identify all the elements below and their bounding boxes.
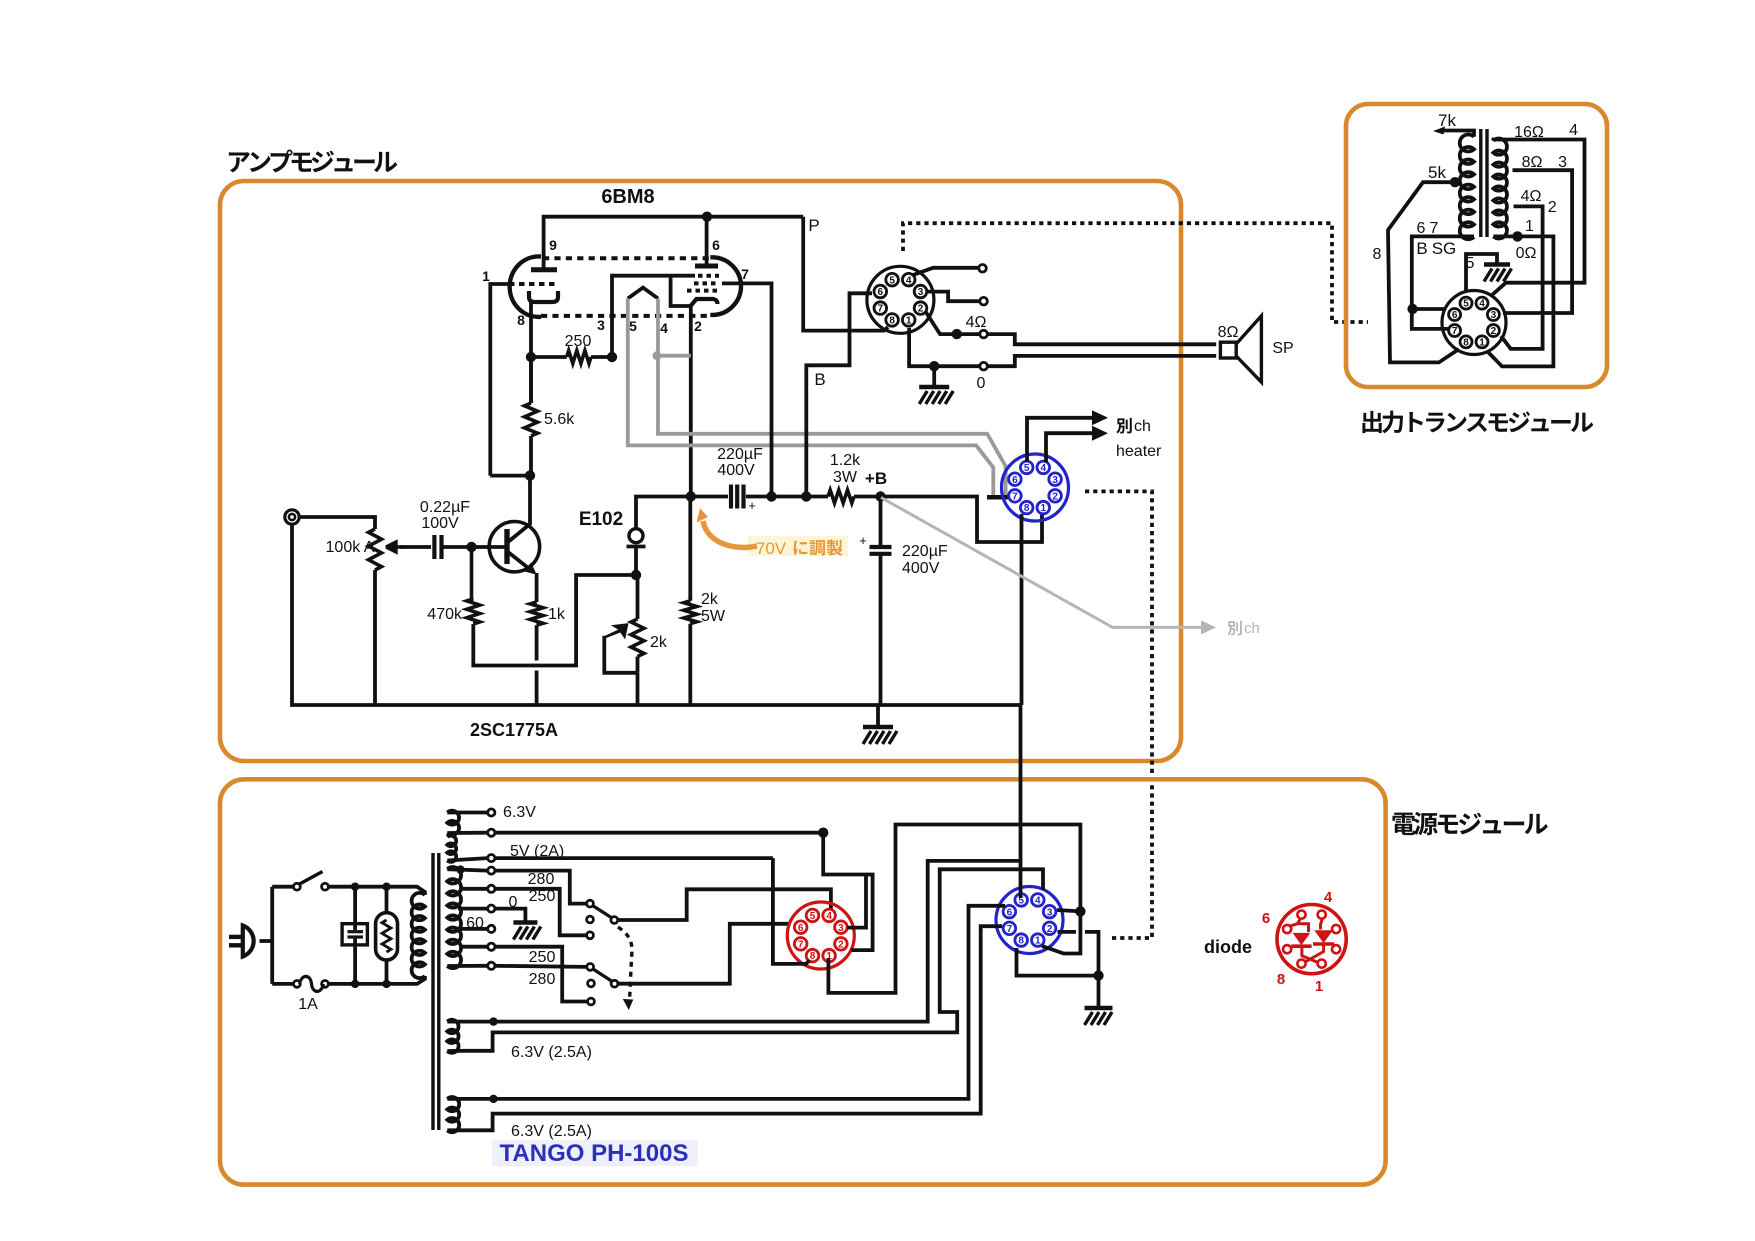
ground power module — [1085, 976, 1113, 1025]
winding 5V — [447, 836, 456, 862]
wire 6.3V top to terminal — [447, 811, 487, 815]
ground amp module — [863, 705, 897, 744]
ground 0 tap — [513, 923, 541, 940]
svg-text:0Ω: 0Ω — [1516, 245, 1537, 262]
svg-text:E102: E102 — [579, 509, 623, 530]
ground OPT — [1484, 265, 1512, 282]
terminal 8ohm — [980, 297, 988, 305]
pin number 6 6BM8 — [712, 237, 720, 253]
svg-text:70V: 70V — [756, 539, 787, 558]
speaker SP — [1218, 316, 1294, 382]
triode grid (dashed) — [509, 282, 556, 286]
wire jack to pot top — [299, 517, 375, 529]
tube 6BM8 envelope left arc — [510, 257, 541, 317]
heater wires end tick — [987, 495, 1008, 500]
pin number 2 6BM8 — [694, 318, 702, 334]
dashed switch gang link — [618, 927, 633, 1010]
resistor 2k 5W — [684, 497, 726, 706]
pentode grid g2 screen (dashed) — [694, 281, 719, 285]
pot wiper arrow — [386, 542, 404, 552]
svg-text:ch: ch — [1244, 620, 1260, 637]
svg-text:+B: +B — [865, 469, 887, 488]
wire 250 to pin3 node — [591, 355, 612, 359]
wire socket pin4 to 16ohm terminal — [913, 268, 978, 275]
heater filament symbol — [628, 288, 658, 299]
wire blue pin3 to junction — [1057, 910, 1080, 911]
resistor 1k — [530, 602, 566, 625]
svg-text:1: 1 — [482, 268, 490, 284]
pin number 5 6BM8 — [629, 318, 637, 334]
triode cathode — [529, 291, 558, 302]
svg-text:5: 5 — [629, 318, 637, 334]
junction 0 wire ground tap — [929, 361, 939, 371]
svg-text:6.3V (2.5A): 6.3V (2.5A) — [511, 1123, 592, 1140]
svg-text:1A: 1A — [298, 996, 318, 1013]
terminal 0 — [458, 894, 518, 912]
svg-text:7: 7 — [1007, 924, 1013, 935]
svg-text:2: 2 — [918, 304, 924, 315]
diode D2 — [1313, 930, 1334, 944]
svg-text:7: 7 — [741, 266, 749, 282]
junction MH top — [382, 883, 390, 891]
junction base-470k — [466, 542, 476, 552]
svg-text:P: P — [808, 216, 819, 235]
wire pin7 down — [722, 283, 772, 496]
tube 6BM8 envelope top dashed — [543, 256, 709, 260]
terminal 250 upper — [460, 885, 555, 905]
transformer OPT core — [1481, 129, 1487, 237]
svg-text:2SC1775A: 2SC1775A — [470, 720, 558, 740]
AC plug — [229, 926, 254, 957]
wire blue pin7 to winding B bottom — [447, 926, 1002, 1130]
junction 250 left — [526, 352, 536, 362]
svg-text:1: 1 — [1041, 503, 1047, 514]
terminal 280 upper — [488, 867, 555, 888]
socket rectifier (red) — [787, 902, 854, 969]
power module box 電源モジュール — [220, 779, 1386, 1184]
wire OPT primary top 7k lead — [1433, 111, 1474, 137]
svg-text:1: 1 — [1035, 936, 1041, 947]
svg-text:5: 5 — [889, 275, 895, 286]
junction blue pin3 B+ — [1075, 906, 1085, 916]
svg-text:1: 1 — [1479, 338, 1485, 349]
wire OPT pin5 to ground — [1466, 254, 1497, 292]
terminal 0 — [977, 362, 988, 392]
wire plug to split — [260, 887, 273, 984]
svg-text:7: 7 — [1452, 326, 1458, 337]
wire blue pin8 to ground — [1017, 948, 1099, 976]
junction P node — [801, 491, 811, 501]
potentiometer 100k A — [326, 529, 382, 570]
pentode plate — [695, 264, 718, 269]
svg-text:3: 3 — [1491, 310, 1497, 321]
svg-text:3: 3 — [838, 923, 844, 934]
svg-text:8Ω: 8Ω — [1218, 324, 1239, 341]
svg-text:100k A: 100k A — [326, 539, 375, 556]
wire to mains switch — [272, 885, 293, 889]
socket output connector (amp) — [867, 266, 934, 333]
svg-text:470k: 470k — [427, 606, 463, 623]
wire pin1 to collector node — [490, 474, 531, 478]
svg-text:3: 3 — [1047, 907, 1053, 918]
svg-text:+: + — [748, 498, 756, 513]
junction power ground — [1093, 970, 1103, 980]
terminal 4ohm — [966, 314, 988, 338]
terminal 6.3V bottom — [488, 829, 495, 836]
annotation 70V adjust — [697, 508, 849, 558]
wire red pin1 to B+ out — [828, 825, 1080, 993]
svg-text:220µF: 220µF — [902, 543, 948, 560]
svg-text:5.6k: 5.6k — [544, 411, 575, 428]
svg-text:5: 5 — [1024, 463, 1030, 474]
svg-text:2: 2 — [1548, 199, 1557, 216]
svg-text:8: 8 — [889, 316, 895, 327]
transistor base bar — [504, 529, 509, 564]
label 6 7 B SG — [1416, 220, 1456, 258]
svg-text:100V: 100V — [421, 515, 459, 532]
svg-text:8: 8 — [1373, 246, 1382, 263]
lamp E102 — [579, 509, 646, 547]
junction OPT 0ohm — [1512, 231, 1522, 241]
amp module box アンプモジュール — [220, 181, 1181, 761]
wire blue pin1 to junction — [1042, 911, 1080, 953]
svg-text:2k: 2k — [650, 634, 668, 651]
terminal 250 lower — [460, 943, 555, 966]
amp module title アンプモジュール — [229, 150, 397, 173]
svg-text:6: 6 — [798, 923, 804, 934]
capacitor 220uF 400V (coupling) — [717, 446, 763, 513]
junction OPT pin6 line — [1407, 304, 1417, 314]
transformer PT primary coil — [412, 893, 425, 978]
svg-text:2k: 2k — [701, 591, 719, 608]
tube 6BM8 label — [601, 186, 654, 208]
output transformer module box — [1346, 104, 1607, 387]
wire blue pin5 branch to winding A top — [497, 861, 1021, 1022]
svg-text:6: 6 — [712, 237, 720, 253]
wire pentode g3 to pin3 lead — [612, 276, 695, 357]
svg-text:400V: 400V — [902, 560, 940, 577]
svg-text:220µF: 220µF — [717, 446, 763, 463]
fuse 1A — [294, 976, 329, 1013]
tube 6BM8 envelope bottom dashed — [541, 314, 709, 318]
wire cap to base — [442, 545, 506, 549]
input jack — [285, 510, 299, 524]
terminal 5V — [488, 843, 565, 862]
svg-text:1: 1 — [906, 316, 912, 327]
label TANGO PH-100S — [492, 1140, 698, 1167]
wire 0 terminal to speaker bottom — [987, 356, 1216, 366]
winding A 6.3V 2.5A — [447, 1020, 592, 1061]
diode module label — [1204, 937, 1252, 957]
tube 6BM8 envelope right arc — [710, 257, 741, 315]
svg-text:250: 250 — [565, 333, 592, 350]
ground speaker common — [919, 366, 953, 404]
pentode grid g3 (dashed) — [698, 274, 719, 278]
wire 5.6k to collector node — [529, 436, 533, 476]
svg-text:+: + — [859, 533, 867, 548]
terminal 60 — [460, 915, 495, 933]
varistor MH — [376, 887, 398, 984]
label 別ch heater — [1116, 418, 1162, 460]
wire 280 lower to switch2 top — [495, 966, 587, 967]
diode socket pins — [1283, 911, 1340, 968]
dashed link output socket to transformer module — [903, 223, 1368, 322]
wire pentode internal g3-cathode tie — [671, 276, 691, 306]
svg-text:4: 4 — [1569, 122, 1578, 139]
wire blue pin4 to heater arrow — [1046, 426, 1108, 463]
junction node plate top — [702, 212, 712, 222]
wire blue pin8 to ground bus — [1020, 514, 1024, 705]
svg-text:SG: SG — [1432, 239, 1457, 258]
svg-text:4Ω: 4Ω — [966, 314, 987, 331]
junction collector node — [525, 470, 535, 480]
wire switch1 common to red pin4 — [618, 889, 831, 920]
wire blue pin2 to ground (hop) — [1058, 932, 1099, 976]
wire blue pin4 to winding A bottom — [467, 869, 1043, 1051]
transformer PT core — [433, 853, 439, 1130]
transistor emitter stroke with arrow — [508, 552, 537, 575]
transformer OPT primary coil — [1460, 134, 1474, 239]
svg-text:5: 5 — [1466, 255, 1475, 272]
junction 6.3V wire corner — [818, 828, 828, 838]
potentiometer 2k — [631, 575, 668, 673]
diode wiring pin4 to D2 — [1321, 918, 1323, 930]
wire fuse to primary bottom — [329, 976, 425, 984]
socket heater/B+ connector (amp, blue) — [1002, 454, 1069, 521]
svg-text:6: 6 — [1452, 310, 1458, 321]
junction winding A top — [489, 1017, 497, 1025]
junction filter bottom — [351, 980, 359, 988]
wire heater pin5 lead (gray) — [628, 299, 994, 496]
junction 250 right pin3 — [607, 352, 617, 362]
wire jack ground down to bus — [292, 524, 1022, 705]
label 16ohm and 4 — [1514, 122, 1578, 141]
resistor 470k — [427, 547, 480, 624]
svg-text:diode: diode — [1204, 937, 1252, 957]
label 1 and 0ohm — [1516, 218, 1537, 262]
svg-text:4Ω: 4Ω — [1521, 188, 1542, 205]
wire 0 tap to ground — [495, 909, 525, 923]
wire 5V to terminal — [447, 858, 487, 860]
transistor collector stroke — [508, 476, 530, 542]
wire triode cathode pin8 lead — [529, 302, 533, 403]
svg-text:8Ω: 8Ω — [1522, 154, 1543, 171]
pin number 3 6BM8 — [597, 317, 605, 333]
svg-text:8: 8 — [1018, 936, 1024, 947]
svg-text:8: 8 — [1024, 503, 1030, 514]
svg-text:9: 9 — [549, 237, 557, 253]
wire gray to other channel B+ — [881, 498, 1260, 638]
svg-text:6.3V (2.5A): 6.3V (2.5A) — [511, 1044, 592, 1061]
svg-text:3: 3 — [597, 317, 605, 333]
svg-text:0: 0 — [977, 375, 986, 392]
wire red pin3 heater branch — [847, 876, 866, 928]
capacitor 220uF 400V (filter) — [859, 497, 948, 706]
wire socket pin3 to 8ohm terminal — [927, 292, 979, 302]
svg-text:B: B — [814, 370, 825, 389]
svg-text:heater: heater — [1116, 443, 1162, 460]
svg-text:16Ω: 16Ω — [1514, 124, 1544, 141]
winding 6.3V — [447, 811, 459, 835]
capacitor 0.22uF 100V — [420, 499, 470, 559]
pin number 8 6BM8 — [517, 312, 525, 328]
svg-text:2: 2 — [1052, 491, 1058, 502]
svg-text:7: 7 — [878, 304, 884, 315]
wire OPT 0ohm tap to 1 — [1488, 236, 1553, 366]
wire 250 upper to switch1 bottom — [495, 889, 587, 936]
socket heater/B+ connector (power, blue) — [996, 887, 1063, 954]
pin number 4 6BM8 — [660, 320, 668, 336]
wire pot bottom to bus — [373, 570, 377, 705]
diode wiring pin6 pin5 to D1 — [1289, 920, 1309, 933]
junction pin2 node — [686, 491, 696, 501]
junction MH bottom — [382, 980, 390, 988]
resistor 250 — [565, 333, 592, 364]
svg-text:1.2k: 1.2k — [830, 452, 861, 469]
wire triode grid to pin1 lead — [490, 284, 509, 476]
pin number 7 6BM8 — [741, 266, 749, 282]
wire 280 upper to switch1 top — [495, 871, 587, 904]
diode socket (red) — [1277, 905, 1346, 974]
label 8ohm and 3 — [1522, 154, 1568, 171]
svg-text:6.3V: 6.3V — [503, 804, 536, 821]
junction E102 bottom — [631, 570, 641, 580]
resistor 1.2k 3W — [828, 452, 861, 503]
power module title 電源モジュール — [1392, 812, 1547, 835]
svg-text:7: 7 — [1430, 220, 1439, 237]
svg-text:4: 4 — [1479, 299, 1485, 310]
label 8 OPT socket wire — [1373, 246, 1382, 263]
transformer OPT secondary coil — [1493, 139, 1507, 239]
svg-text:6BM8: 6BM8 — [601, 186, 654, 208]
junction 4ohm wire — [952, 329, 962, 339]
switch2 HV select — [587, 964, 618, 1005]
svg-text:B: B — [1416, 239, 1427, 258]
svg-text:4: 4 — [1035, 896, 1041, 907]
svg-text:2: 2 — [694, 318, 702, 334]
wire 5V winding to red pin8 — [495, 858, 810, 964]
wire pentode plate to pin6 lead — [705, 217, 709, 266]
wire blue pin5 to heater arrow — [1027, 410, 1108, 461]
junction winding B top — [489, 1095, 497, 1103]
svg-text:5: 5 — [1463, 299, 1469, 310]
svg-text:1: 1 — [1525, 218, 1534, 235]
pin number 9 6BM8 — [549, 237, 557, 253]
winding HV — [447, 867, 461, 968]
svg-text:7: 7 — [798, 939, 804, 950]
diode pin labels — [1262, 889, 1333, 995]
transistor 2SC1775A circle — [489, 522, 539, 572]
wire OPT 4ohm tap to 2 — [1501, 206, 1543, 349]
svg-text:2: 2 — [838, 939, 844, 950]
pin number 1 6BM8 — [482, 268, 490, 284]
terminal 6.3V top — [488, 804, 537, 821]
wire B line — [806, 293, 872, 496]
diode wiring D2 to pin8 — [1306, 944, 1324, 962]
wire pentode cathode pin2 lead — [689, 306, 693, 497]
svg-text:6: 6 — [1012, 475, 1018, 486]
svg-text:400V: 400V — [717, 462, 755, 479]
wire 4ohm terminal to speaker top — [987, 334, 1216, 344]
svg-text:60: 60 — [466, 915, 484, 932]
svg-text:4: 4 — [826, 911, 832, 922]
wire 6.3V winding to red pin2 — [495, 833, 873, 950]
junction +B node — [865, 469, 887, 502]
resistor 5.6k — [525, 403, 576, 436]
svg-text:4: 4 — [660, 320, 668, 336]
wire 2k pot bottom to bus — [636, 673, 640, 705]
svg-text:4: 4 — [1324, 889, 1333, 906]
svg-text:1k: 1k — [548, 606, 566, 623]
svg-text:280: 280 — [528, 871, 555, 888]
svg-text:5: 5 — [810, 911, 816, 922]
wire switch to primary top — [329, 887, 425, 895]
svg-text:3: 3 — [918, 287, 924, 298]
terminal 16ohm — [979, 265, 987, 273]
socket OPT (black) — [1442, 291, 1506, 355]
svg-text:3W: 3W — [833, 469, 858, 486]
switch mains — [294, 872, 329, 891]
svg-text:280: 280 — [529, 971, 556, 988]
svg-text:8: 8 — [1463, 338, 1469, 349]
wire 470k bottom to E102 node — [473, 575, 631, 666]
svg-text:SP: SP — [1272, 340, 1293, 357]
label 4ohm and 2 — [1521, 188, 1557, 216]
wire to fuse — [272, 982, 293, 986]
svg-text:TANGO PH-100S: TANGO PH-100S — [500, 1140, 689, 1167]
pentode cathode — [691, 299, 718, 306]
svg-text:7k: 7k — [1438, 111, 1456, 130]
svg-text:ch: ch — [1134, 418, 1151, 435]
svg-text:6: 6 — [878, 287, 884, 298]
svg-text:0.22µF: 0.22µF — [420, 499, 470, 516]
wire socket pin1 to 0 terminal — [909, 328, 979, 366]
svg-text:6: 6 — [1262, 910, 1270, 927]
wire plate top bus — [544, 217, 804, 270]
winding B 6.3V 2.5A — [447, 1097, 592, 1140]
svg-text:2: 2 — [1491, 326, 1497, 337]
wire OPT 5k tap — [1388, 163, 1459, 362]
svg-text:5k: 5k — [1428, 163, 1446, 182]
wire amp pin8 down to blue pin5 — [1019, 705, 1023, 898]
wire 250 lower to switch2 bottom — [495, 947, 588, 1002]
wire gray heater tap to cathode line — [657, 354, 691, 358]
wire socket pin2 to 4ohm terminal — [926, 312, 980, 335]
svg-text:6: 6 — [1417, 220, 1426, 237]
junction OPT 5k tap — [1450, 177, 1460, 187]
wire 1k bottom to bus (with hop) — [535, 625, 539, 705]
wire wiper to cap 0.22uF — [400, 545, 431, 549]
svg-text:2: 2 — [1047, 924, 1053, 935]
diode wiring D1 to pin1 — [1302, 946, 1318, 962]
svg-text:8: 8 — [810, 951, 816, 962]
terminal 280 lower — [447, 962, 555, 988]
svg-text:6: 6 — [1007, 907, 1013, 918]
svg-text:250: 250 — [529, 949, 556, 966]
svg-text:4: 4 — [1041, 463, 1047, 474]
junction filter top — [351, 883, 359, 891]
junction gray heater tap — [653, 351, 662, 360]
dashed link amp blue socket to power module — [1085, 491, 1152, 938]
wire HV top to terminal 280 — [447, 869, 487, 870]
wire 6.3V bottom to terminal — [447, 831, 487, 835]
svg-text:3: 3 — [1558, 154, 1567, 171]
svg-text:1: 1 — [1315, 978, 1323, 995]
triode plate — [531, 267, 557, 272]
transistor label 2SC1775A — [470, 720, 558, 740]
junction pin7 node — [766, 491, 776, 501]
wire OPT B SG line pins 6 7 — [1412, 236, 1474, 329]
